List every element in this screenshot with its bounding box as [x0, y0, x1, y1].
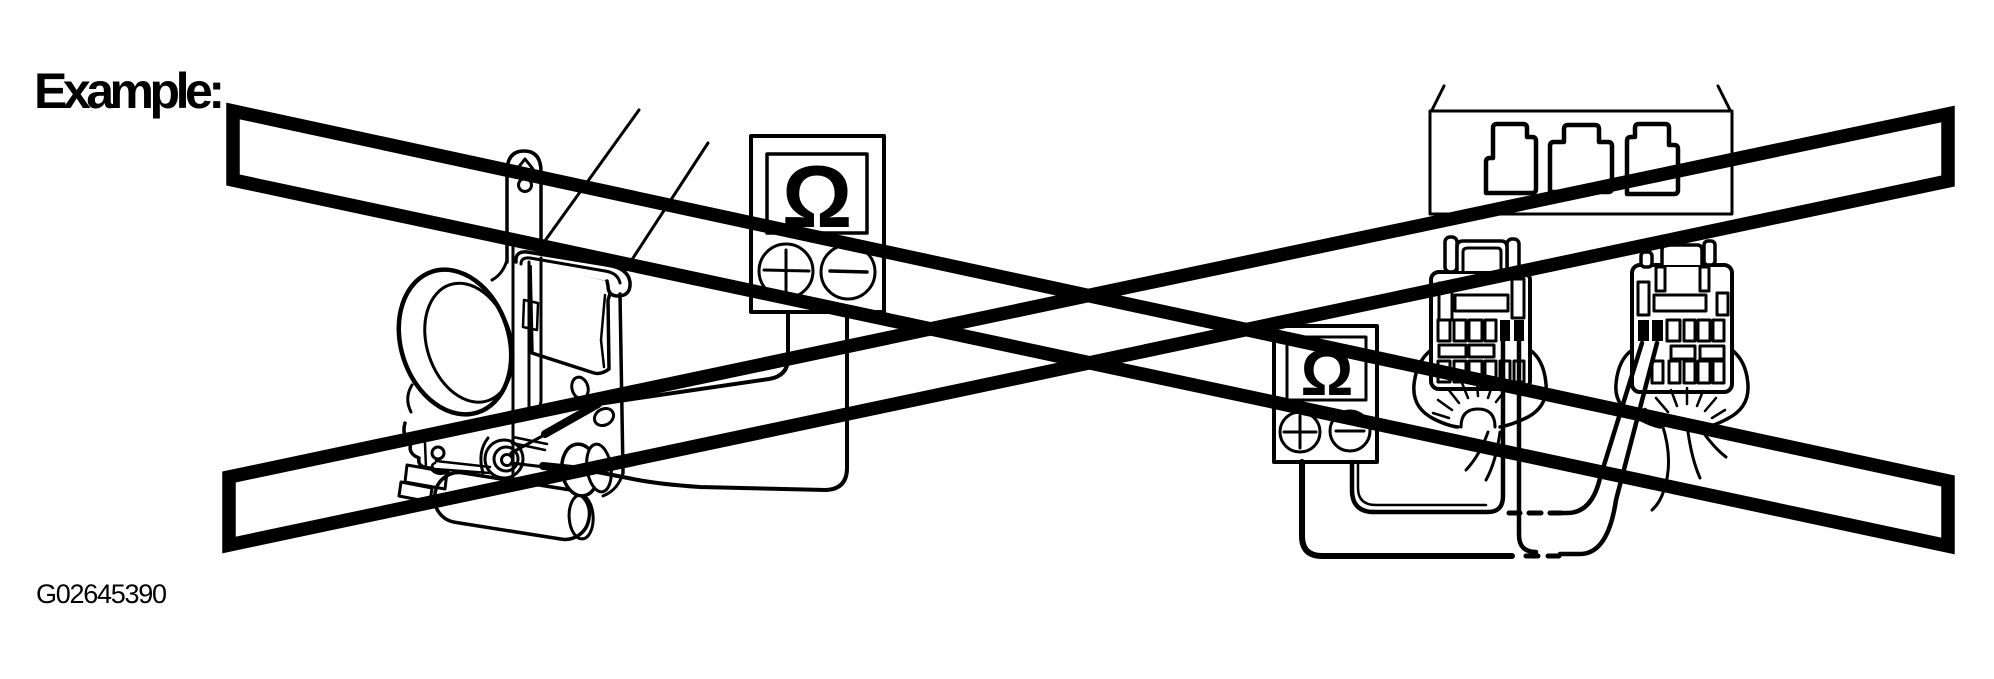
- belt webbing line 1: [529, 110, 639, 263]
- belt webbing line 2: [620, 143, 708, 278]
- grommet flange: [584, 443, 614, 494]
- CN2 center tower: [1662, 245, 1702, 265]
- wire diagonal to CN2 pin A: [1562, 343, 1642, 513]
- body vertical edge 1: [512, 238, 515, 518]
- CN2 skirt curl: [1652, 424, 1726, 510]
- ECU silhouette 3: [1627, 124, 1678, 194]
- CN1 probed pin B: [1514, 320, 1524, 341]
- prohibition bar A: [233, 111, 1948, 546]
- ECU silhouette 2: [1550, 125, 1612, 192]
- ECU corner ear right: [1718, 86, 1730, 110]
- bracket tick: [425, 443, 426, 468]
- CN2 probed pin B: [1652, 320, 1663, 341]
- CN1 side slot right: [1512, 279, 1524, 318]
- connector CN2 body: [1632, 265, 1732, 392]
- probe P1 body: [545, 404, 598, 434]
- column step detail: [523, 300, 538, 330]
- U2 minus terminal: [1330, 411, 1370, 451]
- svg-text:Example:: Example:: [34, 63, 225, 119]
- pretensioner mounting tab: [507, 151, 541, 262]
- CN2 left slot: [1638, 282, 1649, 315]
- wire diagonal to CN2 pin B: [1560, 343, 1657, 554]
- wire inner line: [1358, 462, 1486, 505]
- connector CN1 body: [1431, 272, 1530, 389]
- CN1 probed pin A: [1500, 320, 1510, 341]
- bottom-left bracket piece 2: [399, 482, 432, 502]
- U2 plus terminal: [1280, 412, 1320, 452]
- ECU silhouette 1: [1486, 124, 1536, 193]
- CN2 horizontal row: [1671, 346, 1695, 359]
- CN1 skirt curl: [1466, 432, 1500, 480]
- wire CN1 pin B down: [1519, 341, 1536, 552]
- U2 display: [1287, 337, 1366, 400]
- probe P2 tip: [511, 463, 545, 467]
- top bracket inner: [521, 258, 620, 283]
- probe P2 body: [543, 466, 592, 471]
- CN1 latch right: [1507, 239, 1519, 272]
- cylinder: [431, 469, 601, 544]
- CN2 right slot: [1717, 293, 1728, 315]
- plate bottom link: [603, 473, 623, 496]
- CN1 bottom row: [1438, 361, 1450, 382]
- spool left hook: [408, 385, 412, 412]
- wire U2 plus row: [1302, 462, 1512, 556]
- spool bottom lobes: [404, 423, 448, 473]
- spool lobe circle: [432, 447, 444, 459]
- CN2 skirt left: [1616, 350, 1660, 427]
- tab hole diamond: [517, 159, 533, 178]
- small oval on plate: [569, 375, 590, 400]
- small oval lower: [591, 405, 616, 429]
- ohmmeter U2 box: [1274, 326, 1377, 462]
- top bracket outer: [516, 252, 630, 296]
- U1 plus terminal: [759, 244, 813, 298]
- axle rod: [432, 461, 490, 473]
- CN2 tall prong right: [1704, 241, 1715, 265]
- CN2 skirt right: [1700, 350, 1748, 428]
- CN2 wide slot: [1654, 295, 1706, 311]
- flap fold edge: [601, 295, 605, 367]
- plate right edge: [620, 294, 623, 473]
- CN2 sun rays: [1645, 388, 1725, 419]
- CN2 bottom row: [1652, 361, 1663, 383]
- CN2 top left prong: [1641, 252, 1652, 267]
- spool blob: [381, 255, 530, 429]
- tab hole circle: [519, 179, 532, 192]
- CN2 inner prong 1: [1656, 267, 1665, 291]
- CN2 inner prong 2: [1700, 267, 1709, 291]
- squib rings: [502, 455, 513, 466]
- CN1 latch left: [1445, 237, 1457, 272]
- svg-text:G02645390: G02645390: [36, 579, 167, 609]
- ohmmeter U1 box: [751, 136, 884, 312]
- U1 minus terminal: [821, 245, 875, 299]
- CN1 center hump: [1457, 241, 1507, 271]
- body vertical pair: [529, 258, 541, 409]
- CN2 probed pin A: [1638, 320, 1649, 341]
- CN1 mid row pins: [1438, 320, 1450, 341]
- CN1 skirt left: [1414, 350, 1458, 427]
- grommet: [559, 442, 602, 499]
- tab foot curve: [492, 260, 507, 280]
- CN2 mid row pins: [1667, 320, 1680, 341]
- CN1 side slot left: [1439, 283, 1452, 320]
- hidden wire dashes row1: [1509, 511, 1561, 516]
- CN1 sun rays: [1433, 381, 1506, 418]
- CN1 skirt right: [1500, 350, 1546, 427]
- CN1 wide slot: [1455, 295, 1508, 311]
- under-probe bracket: [512, 437, 547, 450]
- CN1 horizontal row: [1439, 345, 1466, 357]
- CN1 sun dome: [1461, 409, 1495, 427]
- hidden wire dashes row2: [1526, 554, 1559, 559]
- U1 display: [767, 154, 867, 233]
- U1 lead 1: [598, 312, 788, 404]
- prohibition bar B: [229, 114, 1948, 545]
- ECU housing: [1430, 111, 1732, 214]
- probe P1 tip: [511, 433, 548, 453]
- wire U2 minus to CN1 pin A: [1352, 341, 1503, 512]
- flap: [530, 262, 614, 374]
- U1 lead 2: [592, 312, 847, 490]
- bottom-left bracket piece 1: [405, 465, 447, 489]
- ECU corner ear left: [1432, 86, 1444, 110]
